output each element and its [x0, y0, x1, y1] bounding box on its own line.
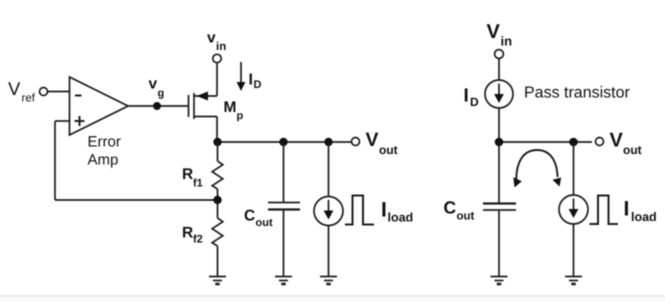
current source ID circle — [485, 80, 513, 108]
svg-text:ref: ref — [22, 93, 36, 105]
svg-text:f2: f2 — [193, 234, 203, 246]
wire drain down to output rail — [216, 117, 218, 143]
capacitor Cout right bottom wire — [498, 211, 500, 277]
ground below Rf2 — [209, 277, 226, 285]
svg-text:I: I — [624, 198, 630, 221]
wire output rail right — [499, 141, 592, 143]
current source Iload left arrow — [328, 200, 330, 212]
wire Vin down to ID source — [498, 59, 500, 81]
op-amp minus sign — [75, 95, 82, 97]
svg-text:load: load — [631, 210, 657, 224]
wire ID to output rail right — [498, 108, 500, 142]
ground below Iload right — [565, 277, 582, 285]
svg-text:R: R — [182, 225, 193, 242]
op-amp plus sign — [75, 116, 85, 126]
current source Iload right arrow — [573, 199, 575, 211]
svg-text:p: p — [237, 110, 244, 122]
curved interaction arrow — [516, 150, 557, 180]
svg-text:out: out — [623, 143, 642, 157]
svg-text:in: in — [501, 34, 513, 49]
svg-text:out: out — [256, 217, 273, 229]
current source Iload right wire top — [573, 142, 575, 195]
node Vin right terminal circle — [495, 50, 504, 59]
svg-text:I: I — [381, 199, 387, 222]
ground below Cout left — [275, 277, 292, 285]
wire feedback vertical — [54, 121, 56, 200]
svg-text:Pass transistor: Pass transistor — [524, 85, 630, 102]
resistor Rf1 — [217, 142, 219, 161]
svg-text:D: D — [470, 95, 479, 109]
node right rail left junction dot — [495, 138, 504, 147]
current source Iload right circle — [559, 195, 588, 224]
current source Iload left wire bottom — [328, 226, 330, 277]
svg-text:g: g — [158, 88, 165, 100]
svg-text:load: load — [388, 211, 414, 225]
svg-text:R: R — [182, 166, 193, 183]
capacitor Cout left plates — [268, 202, 300, 204]
svg-text:C: C — [244, 208, 255, 225]
node Iload junction dot — [324, 138, 332, 146]
wire plus-input stub — [55, 120, 70, 122]
node Vref terminal circle — [40, 88, 48, 96]
ground below Cout right — [491, 277, 508, 285]
capacitor Cout left bottom wire — [283, 211, 285, 277]
capacitor Cout left branch top wire — [283, 142, 285, 202]
node right rail right junction dot — [569, 138, 578, 147]
node Cout junction dot — [279, 138, 287, 146]
current source Iload left circle — [314, 197, 343, 226]
wire op-amp output to gate — [128, 105, 189, 107]
transistor Mp channel bar — [193, 93, 195, 119]
node Vout terminal circle — [352, 138, 360, 146]
svg-text:out: out — [457, 211, 475, 223]
pulse symbol right — [590, 196, 619, 225]
wire output rail — [217, 141, 352, 143]
wire Vref to op-amp — [48, 91, 70, 93]
transistor Mp source wire with arrow — [194, 95, 217, 97]
svg-text:Amp: Amp — [88, 152, 119, 169]
transistor Mp gate bar — [188, 95, 190, 117]
wire source up to vin — [216, 63, 218, 97]
svg-text:Error: Error — [88, 134, 121, 151]
svg-text:V: V — [610, 130, 624, 152]
capacitor Cout right top wire — [498, 142, 500, 203]
transistor Mp drain wire — [194, 116, 217, 118]
svg-text:D: D — [254, 79, 262, 91]
resistor Rf2 — [217, 200, 219, 218]
svg-text:V: V — [8, 78, 21, 99]
svg-text:v: v — [207, 30, 216, 47]
node feedback tap junction dot — [213, 196, 221, 204]
svg-text:f1: f1 — [193, 178, 203, 190]
node vin terminal circle — [213, 54, 221, 62]
bottom divider line — [0, 296, 665, 302]
wire feedback horizontal to divider tap — [55, 199, 218, 201]
capacitor Cout right plates — [483, 202, 516, 204]
svg-text:C: C — [444, 198, 457, 218]
svg-text:V: V — [366, 129, 379, 151]
svg-text:v: v — [149, 76, 158, 93]
current source Iload left wire top — [328, 142, 330, 197]
op-amp U1 Error Amp triangle — [70, 77, 129, 135]
svg-text:V: V — [487, 21, 501, 43]
current source ID arrow — [498, 84, 500, 96]
svg-text:I: I — [249, 72, 253, 89]
node vg junction dot — [153, 102, 161, 110]
current source Iload right wire bottom — [573, 224, 575, 277]
pulse symbol left — [345, 196, 374, 225]
node Vout right terminal circle — [596, 138, 604, 146]
current arrow ID — [240, 62, 242, 84]
ground below Iload left — [320, 277, 337, 285]
svg-text:out: out — [379, 143, 398, 157]
svg-text:I: I — [464, 86, 469, 107]
node drain junction dot — [213, 138, 221, 146]
svg-text:M: M — [224, 99, 237, 116]
svg-text:in: in — [216, 41, 226, 53]
